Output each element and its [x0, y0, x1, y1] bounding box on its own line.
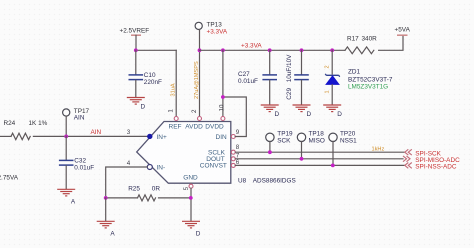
svg-text:10uF/10V: 10uF/10V: [286, 54, 293, 82]
svg-text:AIN: AIN: [74, 115, 85, 122]
wire DVDD vertical to pin 10: [222, 50, 224, 116]
svg-text:2: 2: [324, 65, 330, 68]
junction DVDD: [221, 48, 225, 52]
svg-text:A: A: [71, 199, 76, 206]
svg-text:0R: 0R: [152, 185, 161, 192]
wire +2.5VREF stem: [135, 35, 137, 50]
power symbol +2.5VREF: [120, 27, 150, 35]
wire GND pin to junction: [190, 188, 192, 221]
svg-text:8: 8: [236, 144, 240, 151]
svg-text:LM5Z3V3T1G: LM5Z3V3T1G: [348, 84, 388, 91]
ground D below ZD1: [323, 105, 342, 118]
svg-text:BZT52C3V3T-7: BZT52C3V3T-7: [348, 77, 393, 84]
svg-text:220nF: 220nF: [144, 79, 162, 86]
svg-text:5: 5: [183, 186, 190, 190]
svg-text:DIN: DIN: [216, 134, 228, 141]
junction node +2.5VREF/C10: [134, 48, 138, 52]
resistor R17: [345, 35, 377, 53]
svg-text:+2.5VREF: +2.5VREF: [120, 27, 150, 34]
svg-text:TP13: TP13: [207, 21, 223, 28]
svg-text:0.01uF: 0.01uF: [238, 78, 258, 85]
svg-text:2.75VA: 2.75VA: [0, 175, 19, 182]
junction TP20/CONVST: [331, 164, 335, 168]
svg-text:NSS1: NSS1: [340, 137, 357, 144]
pin 3 IN+ dot: [147, 134, 152, 139]
junction ZD1: [330, 48, 334, 52]
wire SCLK: [235, 151, 404, 153]
wire R25 left segment: [106, 197, 138, 199]
junction C29: [300, 48, 304, 52]
ground D below C29: [293, 105, 312, 118]
svg-text:R17: R17: [347, 35, 359, 42]
resistor R25: [128, 185, 160, 201]
wire down to ground A: [105, 198, 107, 221]
pin 5 GND: [183, 183, 193, 190]
pin 1 REF: [168, 109, 179, 121]
wire IN- to R25 node: [106, 167, 148, 198]
port SPI-SCK: [405, 149, 442, 157]
svg-text:AVDD: AVDD: [185, 124, 203, 131]
svg-text:4: 4: [127, 160, 131, 167]
svg-text:DVDD: DVDD: [205, 124, 224, 131]
svg-text:0.01uF: 0.01uF: [74, 164, 94, 171]
ground A below C32: [57, 189, 76, 205]
pin 2 AVDD: [191, 109, 201, 121]
svg-text:1K 1%: 1K 1%: [29, 120, 48, 127]
svg-text:ZD1: ZD1: [348, 69, 361, 76]
wire TP18 stem: [301, 142, 303, 159]
wire TP13 to AVDD pin 2: [199, 30, 201, 117]
test point TP18: [297, 131, 325, 145]
pin 10 DVDD: [218, 104, 225, 120]
svg-text:9: 9: [236, 129, 240, 136]
power symbol +5VA: [395, 27, 411, 36]
ground D below C10: [127, 98, 146, 111]
junction R25 left / ground A: [104, 196, 108, 200]
svg-text:R24: R24: [4, 120, 16, 127]
resistor R24: [4, 120, 48, 140]
svg-text:CONVST: CONVST: [200, 163, 227, 170]
wire CONVST: [235, 164, 404, 166]
junction AIN / C32: [64, 135, 68, 139]
IC U8 body ADS8866: [137, 122, 231, 184]
junction C27: [268, 48, 272, 52]
svg-text:1kHz: 1kHz: [372, 147, 385, 153]
svg-text:+5VA: +5VA: [395, 27, 411, 34]
ground D below pin 5: [182, 221, 201, 237]
svg-text:10: 10: [218, 104, 225, 111]
pin 9 DIN: [231, 129, 239, 138]
ground A below pin 4: [97, 221, 116, 237]
pin 4 IN-: [127, 160, 153, 170]
wire DIN to DVDD: [223, 97, 246, 137]
svg-text:GND: GND: [183, 174, 198, 181]
svg-text:SCK: SCK: [277, 137, 291, 144]
connector AIN input wire from sheet edge: [0, 135, 11, 137]
svg-text:3: 3: [127, 129, 131, 136]
svg-text:A: A: [110, 231, 115, 238]
pin 6 CONVST: [231, 159, 239, 167]
svg-text:D: D: [141, 104, 146, 111]
svg-text:D: D: [196, 231, 201, 238]
junction R25 right / ground D: [189, 196, 193, 200]
svg-text:+3.3VA: +3.3VA: [207, 28, 228, 35]
junction TP19/SCLK: [268, 150, 272, 154]
svg-text:D: D: [307, 111, 312, 118]
svg-text:D: D: [275, 111, 280, 118]
wire +3.3VA rail: [200, 49, 346, 51]
svg-text:1: 1: [324, 90, 330, 93]
svg-text:ADS8866IDGS: ADS8866IDGS: [253, 177, 296, 184]
port SPI-NSS-ADC: [405, 163, 457, 171]
svg-text:+3.3VA: +3.3VA: [241, 43, 262, 50]
wire REF net horizontal: [136, 49, 176, 51]
capacitor C32: [59, 136, 94, 188]
svg-text:340R: 340R: [362, 35, 378, 42]
svg-text:1: 1: [168, 109, 175, 113]
svg-text:REF: REF: [169, 124, 182, 131]
svg-text:31uA: 31uA: [171, 83, 177, 96]
capacitor C10: [129, 50, 163, 97]
svg-text:27uA@1MSPS: 27uA@1MSPS: [194, 61, 200, 99]
svg-text:U8: U8: [238, 177, 247, 184]
svg-text:IN-: IN-: [157, 164, 166, 171]
svg-text:D: D: [337, 111, 342, 118]
pin 8 SCLK: [231, 144, 239, 154]
wire R17 to +5VA: [379, 35, 403, 50]
wire TP19 stem: [269, 142, 271, 153]
capacitor C27: [238, 50, 277, 104]
test point TP13: [195, 21, 228, 35]
test point TP17: [63, 108, 90, 122]
wire DOUT: [235, 158, 403, 160]
svg-text:2: 2: [191, 109, 198, 113]
svg-text:C32: C32: [74, 157, 86, 164]
junction DIN/DVDD: [221, 95, 225, 99]
wire TP20 stem: [332, 142, 334, 166]
ground D below C27: [261, 105, 280, 118]
zener diode ZD1: [324, 50, 392, 104]
svg-text:C29: C29: [286, 88, 293, 100]
svg-text:R25: R25: [128, 185, 140, 192]
svg-text:IN+: IN+: [157, 134, 168, 141]
wire AIN to pin 3: [33, 135, 149, 137]
port SPI-MISO-ADC: [403, 156, 460, 164]
wire REF net vertical to pin 1: [175, 50, 177, 116]
pin 7 DOUT: [231, 153, 239, 161]
junction +3.3VA at TP13: [198, 48, 202, 52]
wire TP17 stem: [65, 116, 67, 136]
test point TP20: [329, 131, 357, 145]
junction TP18/DOUT: [300, 157, 304, 161]
svg-text:SPI-NSS-ADC: SPI-NSS-ADC: [415, 164, 457, 171]
svg-text:C10: C10: [144, 72, 156, 79]
svg-text:MISO: MISO: [309, 137, 325, 144]
capacitor C29: [286, 50, 309, 104]
wire R25 right segment: [159, 197, 191, 199]
svg-text:AIN: AIN: [91, 129, 102, 136]
test point TP19: [266, 131, 293, 145]
